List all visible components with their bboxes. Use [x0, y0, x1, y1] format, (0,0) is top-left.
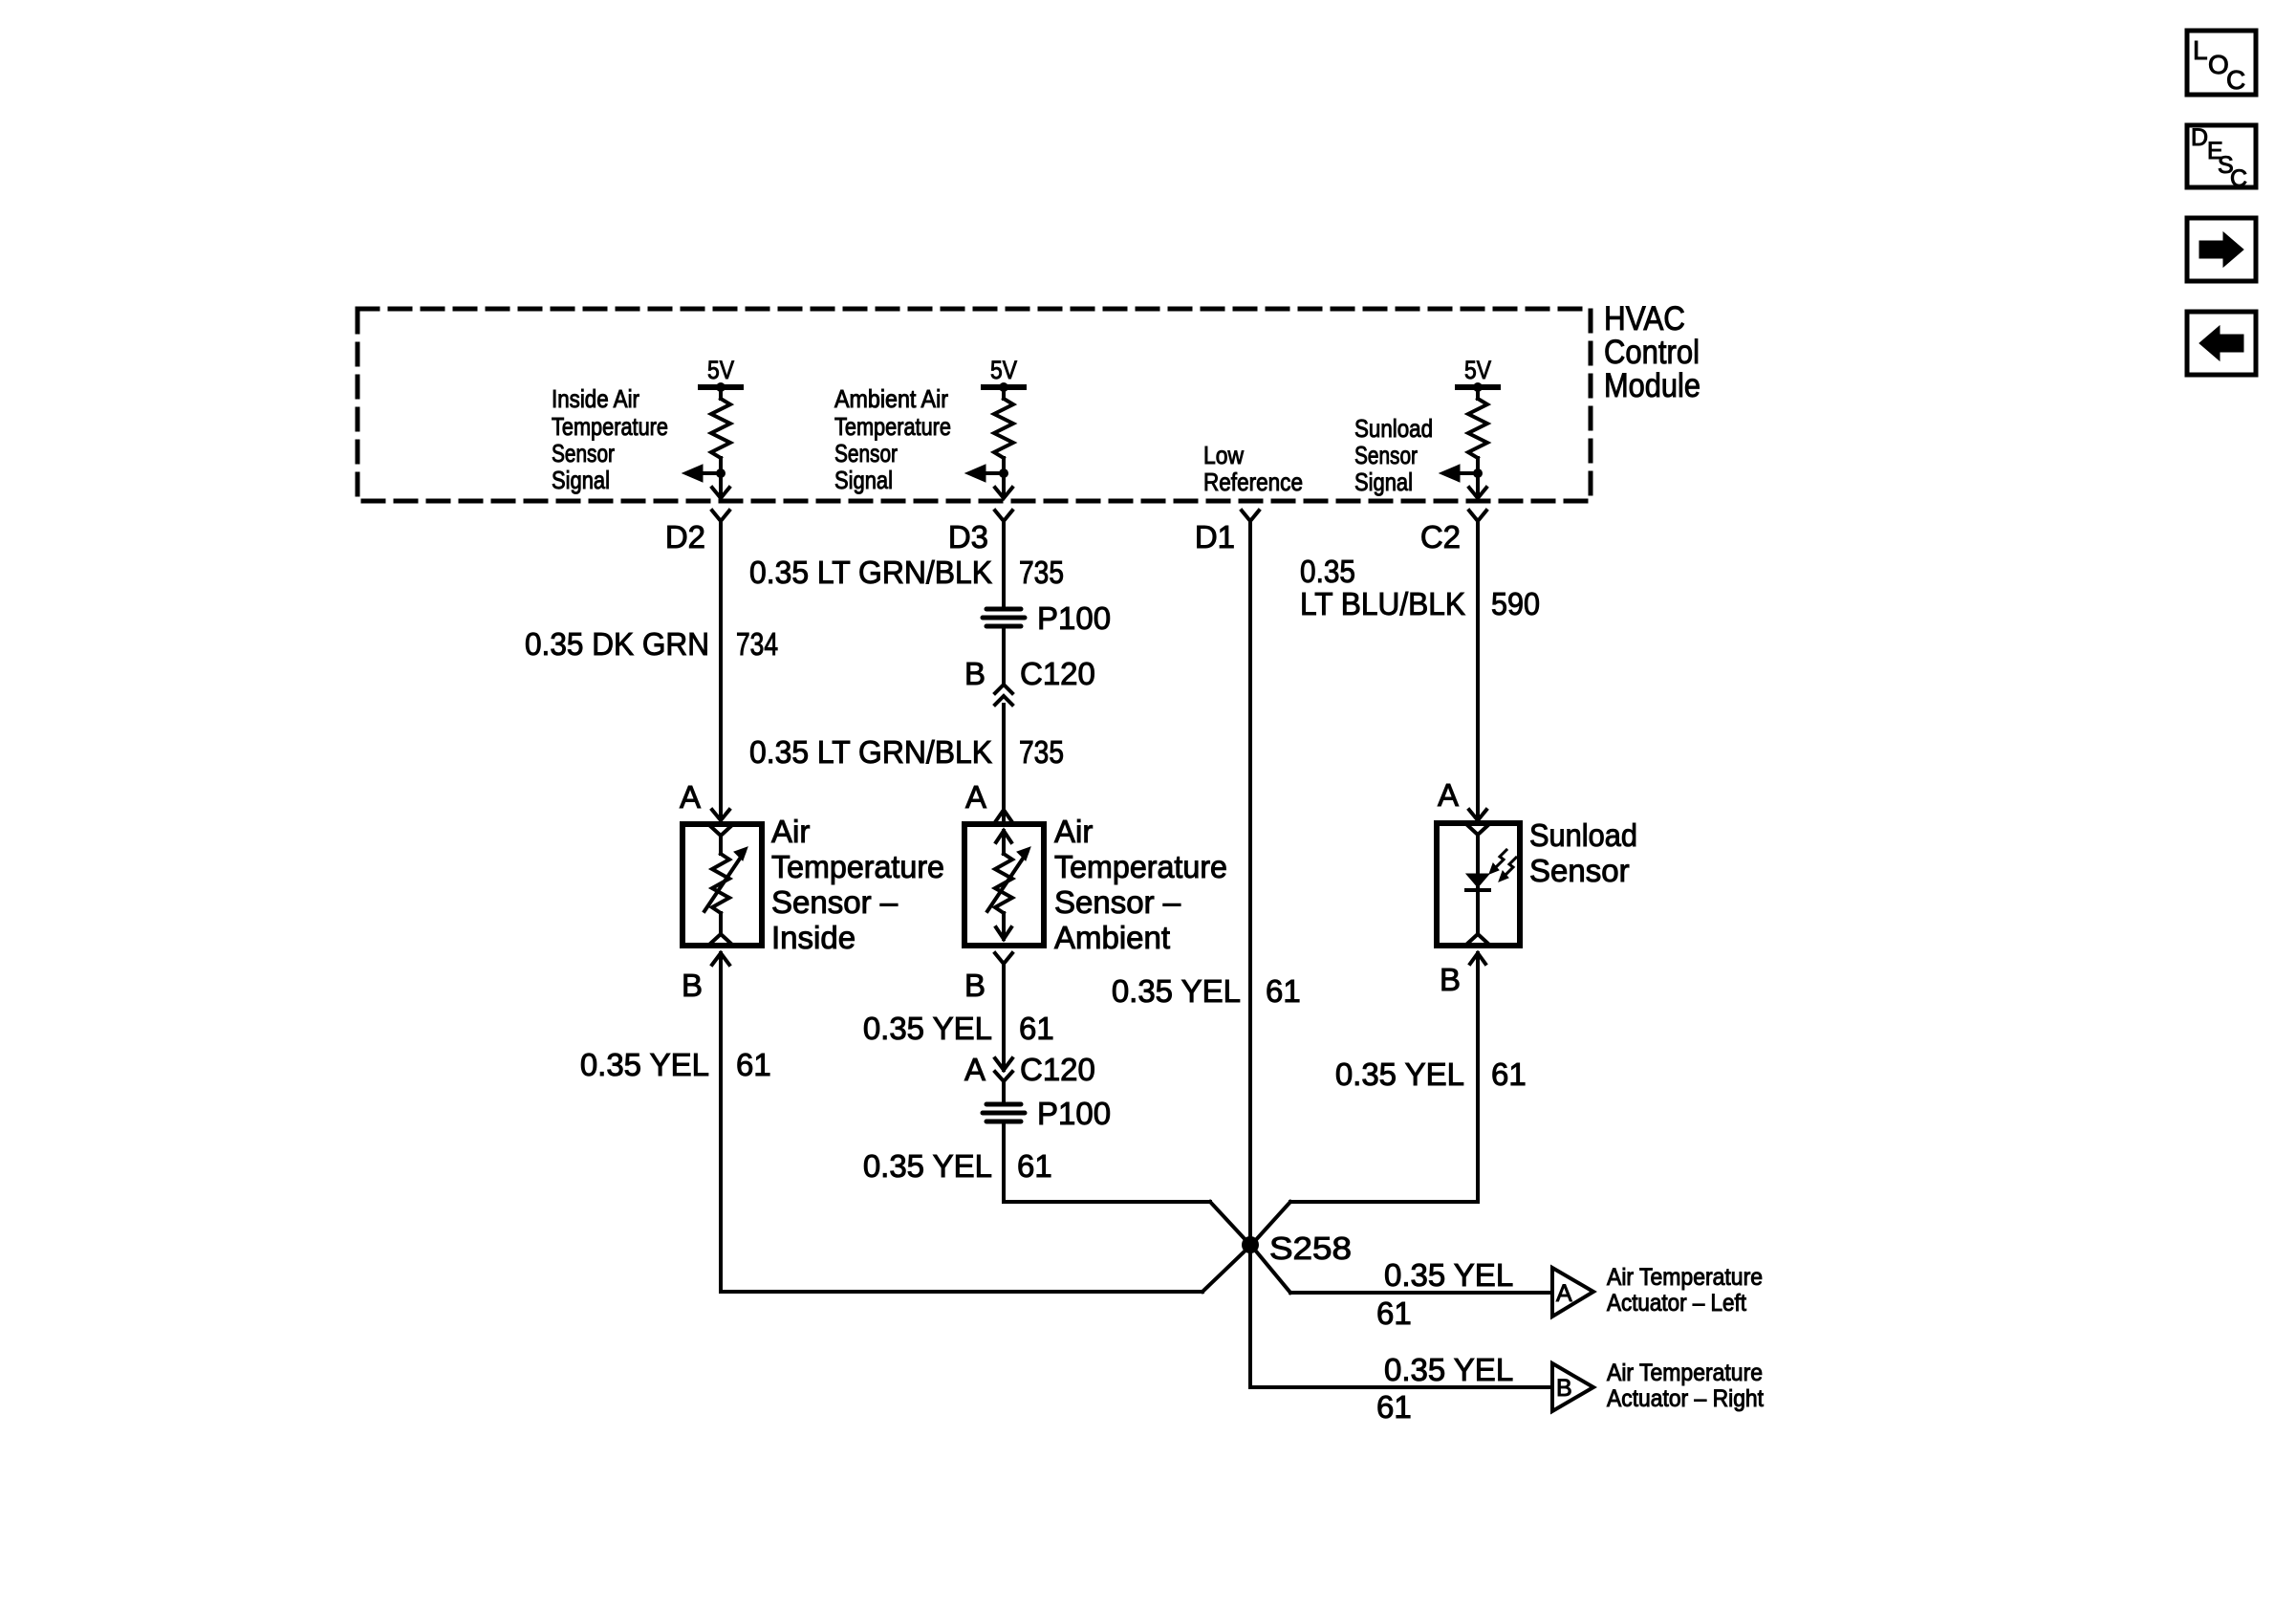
inline connector C120 pin B (double chevron) — [995, 685, 1012, 705]
svg-text:5V: 5V — [1464, 356, 1491, 384]
svg-text:D1: D1 — [1195, 519, 1235, 555]
wire: Inside sensor branch into splice S258 — [721, 1248, 1248, 1292]
svg-text:Air: Air — [1054, 814, 1093, 849]
wire 61 (0.35 YEL) from Sunload sensor pin B down to splice branch — [1476, 953, 1480, 1202]
wire 590 (0.35 LT BLU/BLK) from pin C2 to Sunload sensor pin A — [1476, 521, 1480, 820]
svg-text:0.35 YEL: 0.35 YEL — [1384, 1352, 1513, 1387]
svg-text:Sunload: Sunload — [1354, 414, 1433, 443]
label: 0.35 DK GRN | 734 — [525, 626, 778, 662]
svg-text:HVAC: HVAC — [1604, 300, 1685, 337]
label: Air Temperature Sensor - Ambient — [1054, 814, 1227, 955]
svg-text:C: C — [2230, 165, 2247, 192]
svg-text:Actuator – Left: Actuator – Left — [1607, 1290, 1746, 1317]
arrowhead (up) at Ambient sensor pin A — [965, 779, 1012, 822]
svg-text:Control: Control — [1604, 334, 1700, 371]
arrowhead into Inside sensor pin A — [680, 779, 729, 820]
svg-text:Signal: Signal — [552, 466, 610, 494]
off-page connector A: Air Temperature Actuator - Left — [1552, 1268, 1593, 1317]
svg-text:Temperature: Temperature — [834, 412, 951, 441]
wire: Ambient sensor branch into splice S258 — [1004, 1202, 1248, 1243]
svg-text:5V: 5V — [707, 356, 734, 384]
svg-text:Inside Air: Inside Air — [552, 384, 639, 413]
inline pass-through grommet P100 (lower) — [983, 1104, 1025, 1121]
svg-text:0.35 YEL: 0.35 YEL — [1335, 1056, 1464, 1092]
pin D1 — [1195, 511, 1259, 555]
arrowhead (up) at Inside sensor pin B — [682, 953, 729, 1003]
svg-text:61: 61 — [1019, 1011, 1054, 1046]
svg-text:A: A — [965, 779, 986, 815]
internal 5V pull-up resistor, Ambient Air Temperature Sensor Signal (pin D3) — [965, 356, 1024, 498]
label: Low Reference — [1203, 441, 1303, 496]
label: 0.35 YEL | 61 (Low Reference) — [1112, 973, 1301, 1009]
icon LOC button — [2187, 31, 2256, 95]
wire 61 (0.35 YEL) Low Reference from pin D1 to splice S258 — [1248, 521, 1252, 1387]
pin D3 — [948, 511, 1012, 555]
splice S258 (junction dot) — [1242, 1230, 1352, 1266]
wire: Sunload sensor branch into splice S258 — [1253, 1202, 1478, 1243]
svg-text:B: B — [964, 968, 986, 1003]
wire 735 (0.35 LT GRN/BLK) upper segment from pin D3 — [1002, 521, 1006, 605]
svg-text:Sensor: Sensor — [1354, 441, 1418, 469]
wire 61 (0.35 YEL) from Ambient sensor pin B to C120 pin A — [1002, 964, 1006, 1070]
svg-text:0.35 DK GRN: 0.35 DK GRN — [525, 626, 709, 662]
svg-text:A: A — [1556, 1280, 1572, 1307]
icon previous-page arrow button — [2187, 312, 2256, 375]
label: 0.35 LT GRN/BLK | 735 (lower) — [749, 734, 1064, 770]
label: HVAC Control Module — [1604, 300, 1700, 404]
svg-text:61: 61 — [1491, 1056, 1527, 1092]
svg-text:0.35 LT GRN/BLK: 0.35 LT GRN/BLK — [749, 734, 992, 770]
svg-text:A: A — [964, 1052, 986, 1087]
svg-text:Module: Module — [1604, 367, 1700, 404]
wire from P100 to connector C120 pin B — [1002, 627, 1006, 686]
svg-text:LT BLU/BLK: LT BLU/BLK — [1300, 586, 1465, 621]
svg-text:C: C — [2226, 65, 2245, 95]
svg-text:Temperature: Temperature — [771, 849, 944, 884]
label: 0.35 YEL | 61 (Inside sensor) — [580, 1047, 771, 1082]
wire 61 (0.35 YEL) from P100 down to splice branch — [1002, 1122, 1006, 1202]
svg-text:0.35 YEL: 0.35 YEL — [1112, 973, 1241, 1009]
svg-text:C120: C120 — [1020, 1052, 1095, 1087]
icon DESC button — [2187, 124, 2256, 192]
svg-text:0.35 LT GRN/BLK: 0.35 LT GRN/BLK — [749, 555, 992, 590]
svg-text:Air Temperature: Air Temperature — [1607, 1264, 1763, 1291]
sensor B3: Sunload Sensor (box with photodiode) — [1437, 823, 1520, 946]
wire 61 (0.35 YEL) from S258 to Air Temperature Actuator - Left — [1253, 1248, 1550, 1293]
svg-text:B: B — [682, 968, 703, 1003]
label: Air Temperature Actuator - Left — [1607, 1264, 1763, 1317]
svg-text:Sensor: Sensor — [834, 439, 898, 468]
svg-text:Sensor –: Sensor – — [771, 884, 899, 920]
svg-text:Sensor –: Sensor – — [1054, 884, 1181, 920]
internal 5V pull-up resistor, Inside Air Temperature Sensor Signal (pin D2) — [682, 356, 741, 498]
label: A | C120 (lower) — [964, 1052, 1095, 1087]
svg-text:61: 61 — [736, 1047, 771, 1082]
wire 61 (0.35 YEL) from S258 to Air Temperature Actuator - Right — [1250, 1385, 1550, 1389]
svg-text:Sensor: Sensor — [552, 439, 615, 468]
svg-text:C2: C2 — [1420, 519, 1461, 555]
label: 0.35 YEL | 61 (Sunload) — [1335, 1056, 1527, 1092]
label: Ambient Air Temperature Sensor Signal — [834, 384, 951, 494]
svg-text:Air Temperature: Air Temperature — [1607, 1360, 1763, 1386]
svg-text:A: A — [680, 779, 701, 815]
label: 0.35 LT BLU/BLK | 590 — [1300, 554, 1540, 621]
HVAC Control Module (dashed box) — [357, 309, 1591, 501]
svg-text:B: B — [1440, 962, 1461, 997]
pin D2 — [665, 511, 729, 555]
svg-text:61: 61 — [1376, 1389, 1412, 1425]
svg-text:734: 734 — [736, 626, 778, 662]
svg-text:735: 735 — [1019, 734, 1064, 770]
svg-text:Inside: Inside — [771, 920, 856, 955]
wire from C120 pin A to P100 (lower) — [1002, 1081, 1006, 1102]
wire 734 (0.35 DK GRN) from pin D2 to Inside sensor pin A — [719, 521, 723, 820]
svg-text:0.35 YEL: 0.35 YEL — [863, 1011, 992, 1046]
svg-text:Actuator – Right: Actuator – Right — [1607, 1385, 1764, 1412]
pin C2 — [1420, 511, 1486, 555]
connector chevron at Ambient sensor pin B — [964, 953, 1012, 1003]
label: Inside Air Temperature Sensor Signal — [552, 384, 668, 494]
label: 0.35 LT GRN/BLK | 735 (upper) — [749, 555, 1064, 590]
svg-text:L: L — [2193, 35, 2208, 65]
svg-text:Ambient Air: Ambient Air — [834, 384, 948, 413]
svg-text:0.35 YEL: 0.35 YEL — [580, 1047, 709, 1082]
svg-text:61: 61 — [1376, 1295, 1412, 1331]
svg-text:Temperature: Temperature — [1054, 849, 1227, 884]
svg-text:Sensor: Sensor — [1529, 853, 1630, 888]
label: 0.35 YEL | 61 (Ambient lower) — [863, 1148, 1052, 1184]
svg-text:C120: C120 — [1020, 656, 1095, 691]
svg-text:5V: 5V — [990, 356, 1017, 384]
label: Sunload Sensor Signal — [1354, 414, 1433, 496]
label: 0.35 YEL / 61 (actuator right) — [1376, 1352, 1513, 1425]
svg-text:Temperature: Temperature — [552, 412, 668, 441]
svg-text:D: D — [2191, 124, 2208, 151]
svg-text:Signal: Signal — [1354, 468, 1413, 496]
wire 735 (0.35 LT GRN/BLK) lower segment to Ambient sensor pin A — [1002, 705, 1006, 820]
svg-text:735: 735 — [1019, 555, 1064, 590]
svg-text:Sunload: Sunload — [1529, 817, 1637, 853]
svg-text:61: 61 — [1017, 1148, 1052, 1184]
label: 0.35 YEL / 61 (actuator left) — [1376, 1257, 1513, 1331]
inline pass-through grommet P100 (upper) — [983, 609, 1025, 626]
svg-text:B: B — [1556, 1375, 1572, 1402]
svg-text:P100: P100 — [1037, 600, 1111, 636]
label: 0.35 YEL | 61 (Ambient upper) — [863, 1011, 1054, 1046]
label: Air Temperature Sensor - Inside — [771, 814, 944, 955]
svg-text:Signal: Signal — [834, 466, 893, 494]
arrowhead into Sunload sensor pin A — [1438, 777, 1486, 820]
label: Air Temperature Actuator - Right — [1607, 1360, 1764, 1412]
internal 5V pull-up resistor, Sunload Sensor Signal (pin C2) — [1440, 356, 1498, 498]
svg-text:0.35 YEL: 0.35 YEL — [1384, 1257, 1513, 1293]
sensor B1: Air Temperature Sensor - Inside (box) — [682, 824, 762, 946]
svg-text:P100: P100 — [1037, 1096, 1111, 1131]
svg-text:590: 590 — [1491, 586, 1540, 621]
label: Sunload Sensor — [1529, 817, 1637, 888]
svg-text:D2: D2 — [665, 519, 705, 555]
svg-text:Ambient: Ambient — [1054, 920, 1170, 955]
svg-text:0.35 YEL: 0.35 YEL — [863, 1148, 992, 1184]
wire 61 (0.35 YEL) from Inside sensor pin B down to splice branch — [719, 953, 723, 1291]
arrowhead (up) at Sunload sensor pin B — [1440, 953, 1485, 997]
sensor B2: Air Temperature Sensor - Ambient (box) — [964, 824, 1044, 946]
inline connector C120 pin A (arrow + chevron) — [995, 1058, 1012, 1081]
off-page connector B: Air Temperature Actuator - Right — [1552, 1363, 1593, 1411]
svg-text:61: 61 — [1266, 973, 1301, 1009]
label: B | C120 (upper) — [964, 656, 1095, 691]
icon next-page arrow button — [2187, 218, 2256, 281]
svg-text:Reference: Reference — [1203, 468, 1303, 496]
svg-text:S258: S258 — [1269, 1230, 1352, 1266]
svg-text:0.35: 0.35 — [1300, 554, 1355, 589]
svg-text:B: B — [964, 656, 986, 691]
svg-text:A: A — [1438, 777, 1459, 813]
svg-text:Air: Air — [771, 814, 810, 849]
svg-text:Low: Low — [1203, 441, 1244, 469]
svg-text:D3: D3 — [948, 519, 988, 555]
